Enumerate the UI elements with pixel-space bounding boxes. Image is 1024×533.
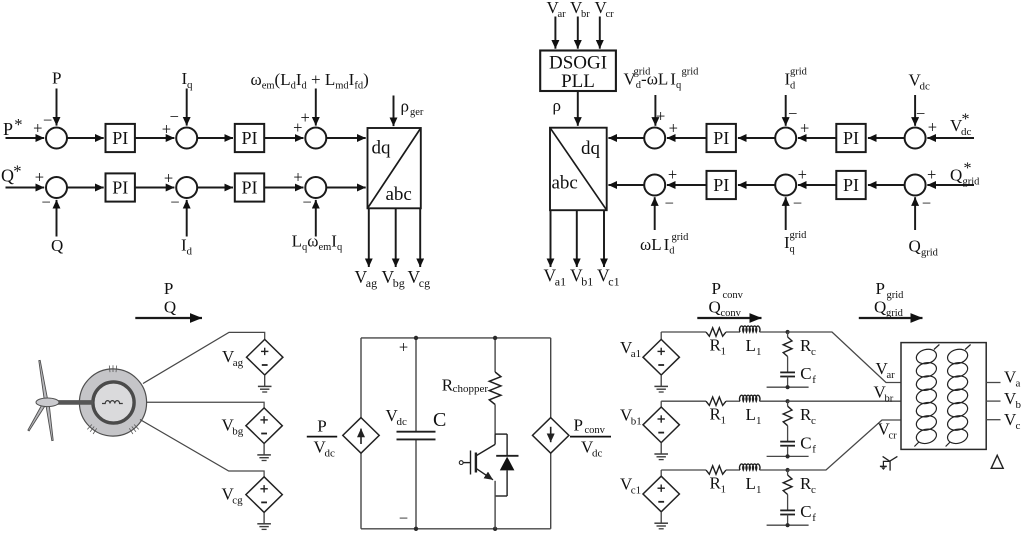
svg-text:ger: ger — [410, 107, 424, 118]
svg-text:PI: PI — [713, 175, 729, 195]
svg-text:q: q — [187, 79, 193, 91]
svg-text:+: + — [293, 168, 302, 187]
svg-text:P: P — [317, 417, 326, 436]
svg-text:f: f — [812, 374, 816, 386]
svg-text:+: + — [669, 118, 678, 137]
svg-text:ag: ag — [366, 276, 377, 290]
svg-text:1: 1 — [721, 484, 727, 496]
svg-text:f: f — [812, 443, 816, 455]
svg-text:dc: dc — [592, 448, 603, 460]
svg-text:grid: grid — [634, 67, 652, 78]
svg-text:−: − — [399, 508, 408, 527]
svg-text:−: − — [43, 110, 52, 129]
svg-text:bg: bg — [393, 276, 405, 290]
svg-text:bg: bg — [232, 426, 244, 438]
svg-text:−: − — [170, 107, 179, 126]
svg-text:1: 1 — [756, 346, 762, 358]
svg-text:P: P — [712, 279, 721, 298]
svg-text:−: − — [170, 192, 179, 211]
svg-text:PI: PI — [843, 175, 859, 195]
svg-text:P: P — [574, 416, 583, 435]
svg-text:c: c — [1016, 420, 1021, 432]
svg-text:dq: dq — [372, 138, 392, 159]
svg-text:b1: b1 — [631, 416, 642, 428]
svg-text:br: br — [581, 9, 590, 20]
svg-text:br: br — [885, 394, 894, 405]
svg-text:+: + — [800, 118, 809, 137]
svg-text:PI: PI — [241, 178, 257, 198]
svg-text:cr: cr — [889, 431, 898, 442]
svg-text:L: L — [746, 336, 756, 355]
svg-text:a1: a1 — [555, 275, 566, 289]
svg-text:Q: Q — [1, 166, 14, 186]
svg-text:+: + — [301, 108, 310, 127]
svg-text:grid: grid — [921, 248, 939, 259]
svg-text:d: d — [187, 246, 193, 258]
svg-text:1: 1 — [756, 484, 762, 496]
svg-text:−: − — [916, 104, 925, 123]
svg-text:*: * — [14, 115, 22, 134]
svg-text:Q: Q — [51, 236, 63, 255]
svg-text:c1: c1 — [608, 275, 619, 289]
svg-text:conv: conv — [585, 425, 606, 436]
svg-text:c1: c1 — [631, 485, 641, 497]
svg-text:grid: grid — [963, 177, 981, 188]
svg-text:C: C — [433, 409, 446, 431]
svg-text:f: f — [812, 512, 816, 524]
svg-text:Vd-ωLIq: Vd-ωLIq — [624, 70, 682, 92]
svg-text:+: + — [798, 165, 807, 184]
svg-text:cr: cr — [606, 9, 615, 20]
svg-text:a: a — [1016, 378, 1021, 390]
svg-text:−: − — [793, 193, 802, 212]
svg-text:ar: ar — [887, 370, 896, 381]
svg-text:c: c — [811, 484, 816, 496]
svg-text:1: 1 — [721, 346, 727, 358]
svg-text:dq: dq — [581, 138, 601, 159]
svg-text:+: + — [928, 118, 937, 137]
svg-text:PI: PI — [112, 128, 128, 148]
svg-text:c: c — [811, 415, 816, 427]
svg-text:+: + — [35, 168, 44, 187]
svg-text:grid: grid — [672, 232, 690, 243]
svg-text:ρ: ρ — [401, 97, 409, 116]
svg-text:+: + — [399, 338, 408, 357]
svg-text:+: + — [656, 107, 665, 126]
svg-text:P: P — [52, 69, 61, 88]
svg-text:Q: Q — [709, 298, 721, 317]
svg-text:dc: dc — [325, 448, 336, 460]
svg-text:P: P — [876, 279, 885, 298]
svg-text:+: + — [164, 169, 173, 188]
svg-text:b1: b1 — [581, 275, 593, 289]
svg-text:grid: grid — [790, 67, 808, 78]
svg-text:*: * — [964, 160, 972, 177]
svg-text:grid: grid — [790, 230, 808, 241]
svg-text:cg: cg — [232, 495, 243, 507]
svg-text:L: L — [746, 474, 756, 493]
svg-text:PLL: PLL — [561, 71, 595, 92]
svg-text:−: − — [41, 192, 50, 211]
svg-text:−: − — [665, 193, 674, 212]
svg-text:Q: Q — [950, 166, 962, 185]
svg-text:C: C — [800, 502, 811, 521]
svg-text:−: − — [303, 192, 312, 211]
svg-text:b: b — [1016, 399, 1022, 411]
svg-text:P: P — [164, 279, 173, 298]
svg-text:L: L — [746, 405, 756, 424]
svg-text:dc: dc — [397, 416, 408, 428]
svg-text:q: q — [790, 244, 796, 255]
svg-text:Q: Q — [164, 298, 176, 317]
svg-text:conv: conv — [723, 290, 744, 301]
svg-text:grid: grid — [682, 67, 700, 78]
svg-text:Q: Q — [874, 298, 886, 317]
svg-text:grid: grid — [887, 290, 905, 301]
svg-text:abc: abc — [386, 184, 412, 205]
svg-text:−: − — [922, 193, 931, 212]
svg-text:LqωemIq: LqωemIq — [292, 232, 343, 254]
svg-text:PI: PI — [713, 128, 729, 148]
svg-text:d: d — [790, 81, 796, 92]
svg-text:P: P — [3, 119, 13, 139]
svg-text:C: C — [800, 364, 811, 383]
svg-text:+: + — [927, 165, 936, 184]
svg-text:PI: PI — [112, 178, 128, 198]
svg-text:1: 1 — [756, 415, 762, 427]
svg-text:Q: Q — [909, 237, 921, 256]
svg-text:+: + — [33, 119, 42, 138]
svg-text:+: + — [668, 165, 677, 184]
svg-text:cg: cg — [419, 276, 430, 290]
svg-text:C: C — [800, 433, 811, 452]
svg-text:chopper: chopper — [453, 383, 489, 395]
svg-text:PI: PI — [843, 128, 859, 148]
svg-text:dc: dc — [920, 81, 931, 93]
svg-text:*: * — [962, 111, 970, 128]
svg-text:ag: ag — [233, 357, 244, 369]
svg-text:*: * — [13, 162, 21, 181]
svg-text:1: 1 — [721, 415, 727, 427]
svg-text:a1: a1 — [631, 348, 641, 360]
svg-text:ρ: ρ — [553, 96, 561, 115]
svg-text:−: − — [788, 104, 797, 123]
svg-text:abc: abc — [552, 173, 578, 194]
svg-text:ar: ar — [558, 9, 567, 20]
svg-text:c: c — [811, 346, 816, 358]
svg-text:PI: PI — [241, 128, 257, 148]
